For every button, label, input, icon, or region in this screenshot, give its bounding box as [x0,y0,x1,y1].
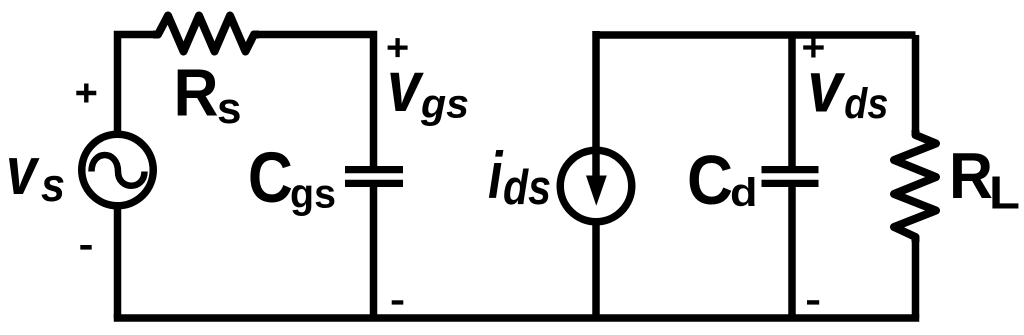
wire: right network top rail [596,31,916,39]
polarity - of vgs [392,300,404,304]
svg-text:gs: gs [420,81,469,127]
label ids [488,138,551,215]
capacitor Cgs [345,170,403,184]
capacitor Cd [762,170,819,184]
label Cgs [248,139,336,218]
svg-text:C: C [248,139,293,218]
polarity - of vs [80,245,91,250]
label vds [807,47,888,128]
bottom rail wire [114,314,920,322]
wire: Cgs bottom plate to bottom rail [370,183,378,318]
wire: RL bottom to bottom rail [912,237,920,318]
polarity - of vds [807,300,819,304]
svg-text:gs: gs [290,171,336,217]
voltage source vs [82,134,154,206]
svg-text:v: v [6,133,40,209]
polarity + of vs [76,84,96,103]
wire: RL branch top [912,35,920,135]
svg-text:s: s [217,84,241,133]
label vs [6,133,65,211]
svg-text:v: v [387,47,424,127]
svg-text:i: i [488,138,504,212]
svg-text:ds: ds [844,81,888,128]
polarity + of vgs [388,38,408,57]
svg-text:L: L [989,166,1020,218]
svg-text:R: R [949,139,993,212]
label RL [949,139,1020,219]
svg-text:s: s [41,158,65,211]
current source ids [560,150,632,222]
svg-text:d: d [730,171,758,215]
label Cd [687,141,758,219]
wire: Cd branch top [788,35,796,167]
wire: source bottom to bottom rail [114,209,122,319]
polarity + of vds [803,38,824,58]
svg-text:ds: ds [503,161,551,215]
svg-text:R: R [174,56,219,131]
svg-text:v: v [807,47,845,127]
label Rs [174,56,242,134]
wire: ids branch top + arrow shaft [592,31,600,179]
wire: ids bottom to bottom rail [592,222,600,318]
wire: top rail from Rs to Cgs branch corner, down to Cgs top plate [254,35,374,168]
wire: left vertical from source + up to top-left corner, then to Rs [118,35,159,132]
svg-text:C: C [687,141,733,219]
label vgs [387,47,469,127]
resistor Rs [153,16,259,52]
resistor RL [894,130,936,242]
wire: Cd bottom to bottom rail [788,183,796,318]
